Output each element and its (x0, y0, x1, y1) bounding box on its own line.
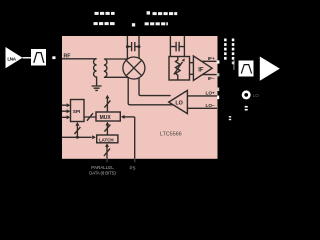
svg-text:LO−: LO− (206, 103, 216, 108)
svg-text:LATCH: LATCH (99, 137, 114, 142)
svg-text:DATA (8 BITS): DATA (8 BITS) (89, 170, 116, 175)
svg-text:IF+: IF+ (208, 56, 215, 61)
svg-text:LO: LO (253, 93, 260, 98)
svg-text:LNA: LNA (7, 56, 16, 61)
svg-text:SPI: SPI (73, 109, 81, 114)
svg-text:LTC5566: LTC5566 (160, 132, 182, 138)
svg-text:IF: IF (198, 68, 204, 74)
svg-text:RF: RF (64, 53, 71, 59)
svg-text:MUX: MUX (100, 115, 112, 121)
svg-text:IF−: IF− (208, 76, 215, 81)
svg-text:LO+: LO+ (206, 90, 216, 95)
svg-text:PS: PS (129, 165, 135, 170)
svg-text:LO: LO (175, 101, 183, 107)
